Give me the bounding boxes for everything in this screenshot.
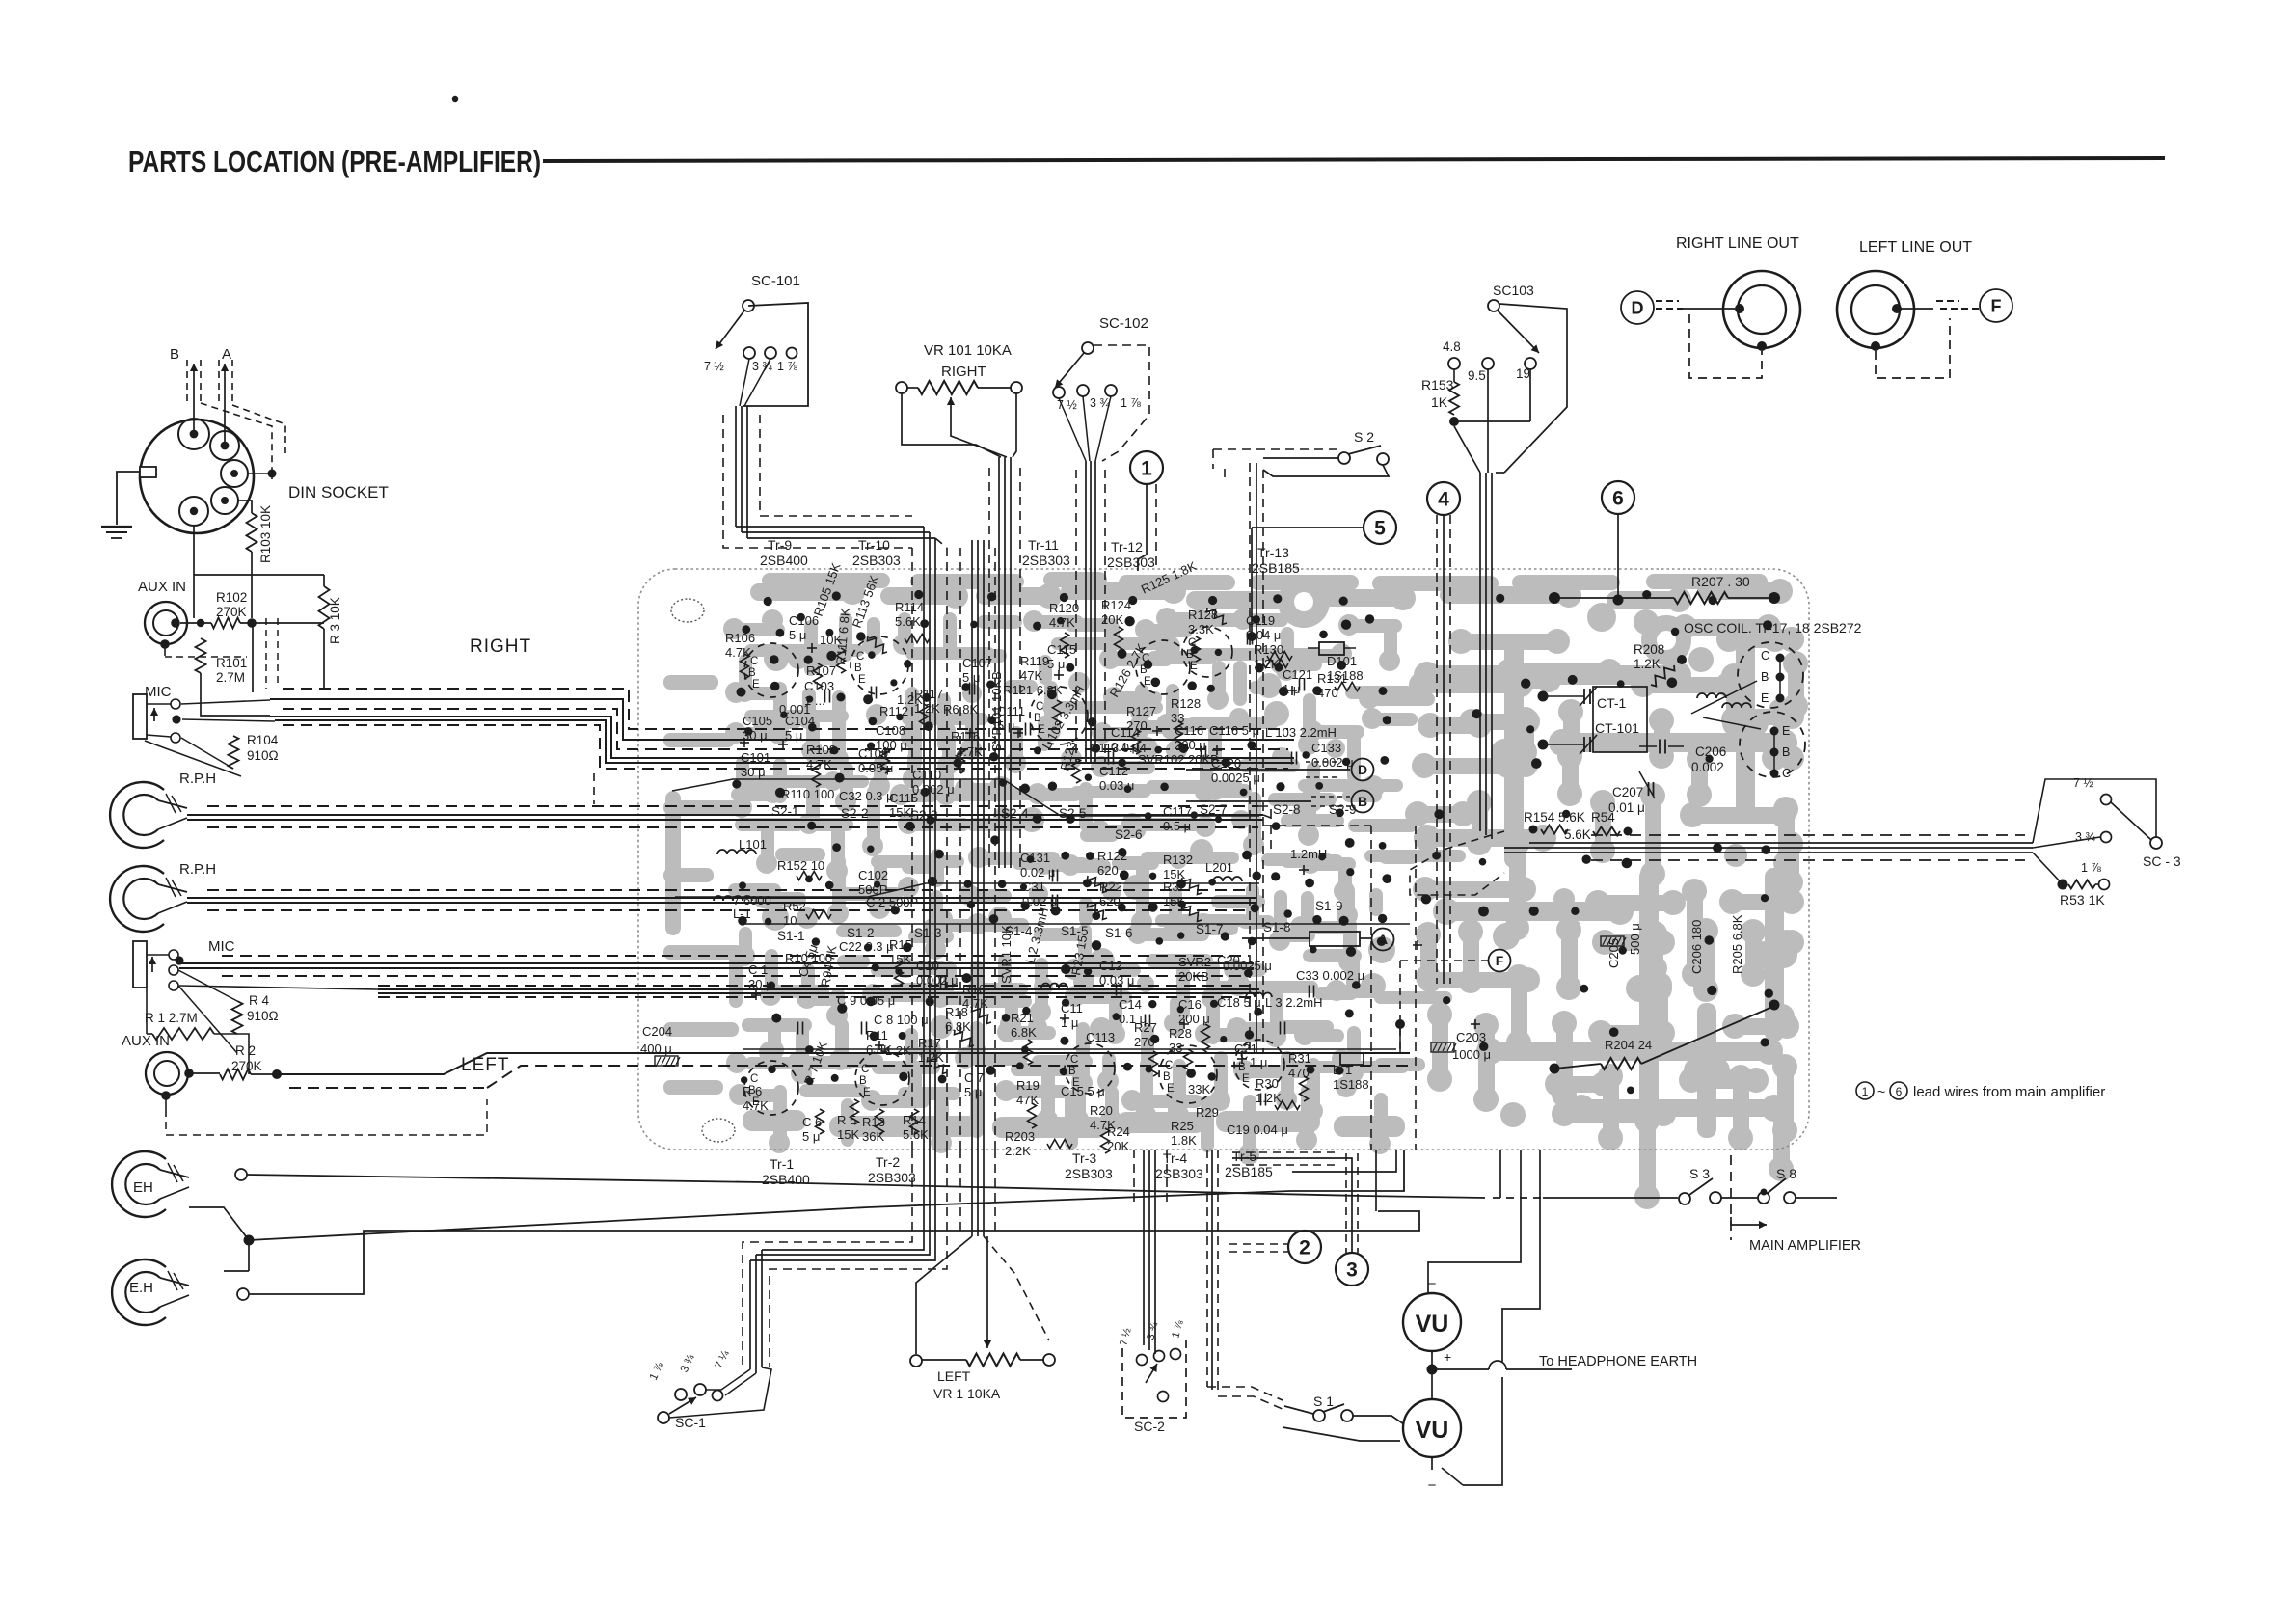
svg-text:A: A	[1378, 932, 1388, 947]
svg-text:R108: R108	[806, 743, 836, 757]
DIN socket	[140, 420, 254, 533]
transistor Tr-5 (dashed outline)	[1234, 1040, 1284, 1090]
svg-text:1.2K: 1.2K	[897, 692, 923, 707]
svg-text:Tr-12: Tr-12	[1111, 539, 1143, 555]
svg-text:C32 0.3 μ: C32 0.3 μ	[839, 789, 894, 803]
svg-text:C206 180: C206 180	[1689, 920, 1704, 974]
svg-text:47K: 47K	[1020, 668, 1042, 683]
svg-text:CT-1: CT-1	[1597, 695, 1627, 711]
svg-text:2.7M: 2.7M	[216, 670, 245, 685]
resistor R4	[232, 1001, 243, 1034]
svg-text:4: 4	[1438, 489, 1449, 511]
lead wire 1 (circled)	[1130, 451, 1163, 484]
svg-text:4.8: 4.8	[1443, 339, 1461, 354]
svg-text:C107: C107	[962, 656, 992, 670]
svg-text:DIN SOCKET: DIN SOCKET	[288, 483, 389, 501]
svg-text:Tr-3: Tr-3	[1072, 1150, 1096, 1166]
svg-text:R15: R15	[889, 937, 912, 952]
svg-text:C102: C102	[858, 868, 888, 882]
svg-text:S2-6: S2-6	[1115, 827, 1143, 842]
svg-text:C133: C133	[1311, 741, 1341, 755]
wire R101 to MIC	[201, 673, 270, 716]
svg-text:C101: C101	[741, 750, 770, 765]
lead wire 5 (circled)	[1364, 511, 1396, 544]
svg-text:5 μ: 5 μ	[964, 1085, 982, 1099]
svg-text:S1-8: S1-8	[1263, 920, 1291, 934]
S2 bundle down to bus E	[1249, 463, 1251, 1051]
svg-text:Tr-13: Tr-13	[1257, 545, 1289, 560]
svg-text:C204: C204	[642, 1024, 672, 1039]
svg-text:10: 10	[783, 913, 797, 928]
bundle to SC-3 (right exit)	[1529, 842, 2033, 844]
svg-text:SC-2: SC-2	[1134, 1419, 1165, 1434]
svg-text:0.002 μ: 0.002 μ	[1311, 755, 1354, 770]
svg-text:30 μ: 30 μ	[741, 765, 766, 779]
svg-text:B: B	[859, 1075, 867, 1087]
svg-text:C: C	[1036, 701, 1043, 713]
svg-text:2SB185: 2SB185	[1252, 560, 1300, 576]
svg-text:0.05 μ: 0.05 μ	[858, 761, 893, 775]
svg-text:RIGHT: RIGHT	[470, 636, 531, 657]
svg-text:C14: C14	[1119, 997, 1142, 1012]
transistor Tr-9 (dashed outline)	[744, 643, 798, 697]
SC-102 dashed frame	[1094, 345, 1149, 461]
stray ink dot	[452, 96, 458, 102]
svg-text:2: 2	[1299, 1237, 1310, 1259]
svg-text:R128: R128	[1171, 696, 1201, 711]
R.P.H hook 1	[110, 782, 164, 848]
node R102/R3	[247, 618, 257, 628]
svg-text:Tr-4: Tr-4	[1163, 1150, 1187, 1166]
svg-text:7 ½: 7 ½	[704, 360, 724, 373]
svg-text:S2-7: S2-7	[1200, 802, 1228, 817]
D dashed box	[1689, 314, 1762, 378]
svg-text:C121: C121	[1283, 667, 1312, 682]
DIN pin 4	[211, 487, 238, 514]
svg-text:R205 6.8K: R205 6.8K	[1730, 914, 1744, 974]
svg-text:VU: VU	[1416, 1417, 1449, 1444]
svg-text:6.8K: 6.8K	[945, 1019, 971, 1034]
horizontal wire crossing PCB (row 2)	[675, 883, 1259, 897]
svg-text:C 2 500P: C 2 500P	[866, 895, 918, 909]
svg-text:2SB303: 2SB303	[1155, 1166, 1203, 1181]
svg-text:5 μ: 5 μ	[789, 628, 806, 642]
lead wire 3 (circled)	[1336, 1253, 1368, 1286]
svg-text:R 3 10K: R 3 10K	[328, 597, 342, 644]
svg-text:C: C	[1782, 767, 1791, 780]
svg-text:1K: 1K	[1431, 394, 1448, 410]
long wire L3	[249, 1211, 1419, 1294]
svg-text:R116: R116	[951, 729, 980, 744]
cable bus D	[222, 955, 1249, 957]
note: lead wires from main amplifier	[1856, 1082, 1874, 1099]
resistor R104	[229, 736, 239, 769]
svg-text:R124: R124	[1101, 598, 1131, 612]
svg-text:5 μ: 5 μ	[997, 718, 1014, 733]
svg-text:OSC COIL. Tr-17, 18 2SB272: OSC COIL. Tr-17, 18 2SB272	[1684, 620, 1862, 636]
svg-text:B: B	[170, 346, 179, 363]
svg-text:9.5: 9.5	[1468, 368, 1486, 383]
svg-text:C: C	[1761, 649, 1769, 663]
SC-102 lever	[1055, 353, 1084, 388]
DIN pin 2	[210, 431, 239, 460]
svg-text:C: C	[856, 651, 864, 663]
svg-text:C15 5 μ: C15 5 μ	[1061, 1084, 1105, 1098]
svg-text:400 μ: 400 μ	[640, 1042, 672, 1056]
svg-text:20KB: 20KB	[1178, 969, 1209, 984]
svg-text:R20: R20	[1090, 1103, 1113, 1118]
svg-text:6: 6	[1612, 488, 1624, 510]
second bundle into PCB	[971, 540, 973, 1150]
svg-text:D: D	[1632, 298, 1644, 317]
svg-text:−: −	[1428, 1477, 1437, 1494]
svg-text:C11: C11	[1061, 1001, 1083, 1015]
svg-text:R14: R14	[903, 1113, 926, 1127]
svg-text:+: +	[1444, 1349, 1451, 1365]
solder pads	[732, 590, 1773, 1094]
svg-text:1 ⅞: 1 ⅞	[1121, 396, 1141, 410]
svg-text:5 μ: 5 μ	[785, 728, 802, 743]
svg-text:R19: R19	[1016, 1078, 1040, 1093]
contact 2	[237, 1288, 249, 1300]
arrow to main amplifier	[1731, 1217, 1747, 1225]
lead wire F (circled)	[1980, 289, 2012, 322]
svg-text:R 1 2.7M: R 1 2.7M	[145, 1011, 198, 1025]
PCB copper traces (screened gray)	[663, 572, 1808, 1209]
resistor R103	[247, 513, 257, 552]
svg-text:E: E	[1782, 724, 1790, 738]
svg-text:C 8 100 μ: C 8 100 μ	[874, 1013, 929, 1027]
svg-text:VR 1 10KA: VR 1 10KA	[933, 1386, 1001, 1401]
cable bus E (LEFT feed)	[277, 1053, 1410, 1074]
svg-text:1 ⅞: 1 ⅞	[777, 360, 797, 373]
svg-text:C116 5 μ: C116 5 μ	[1209, 723, 1259, 738]
lead wire 2 (circled)	[1288, 1231, 1321, 1263]
svg-text:R208: R208	[1634, 642, 1664, 657]
svg-text:R.P.H: R.P.H	[179, 771, 216, 787]
svg-text:L-1: L-1	[733, 907, 751, 921]
svg-text:C 7: C 7	[964, 1070, 984, 1085]
svg-text:1.2mH: 1.2mH	[1290, 847, 1327, 861]
svg-text:C110: C110	[912, 768, 941, 782]
svg-text:A: A	[222, 346, 231, 363]
VU meter 2	[1403, 1399, 1461, 1457]
svg-text:1.2K: 1.2K	[885, 1043, 911, 1058]
svg-text:C131: C131	[1020, 851, 1050, 865]
SC-102 pole contact	[1082, 342, 1094, 354]
svg-text:R52: R52	[783, 899, 806, 913]
svg-text:R106: R106	[725, 631, 755, 645]
svg-text:B: B	[1140, 664, 1148, 676]
contact	[235, 1169, 247, 1180]
VR101 wiring	[902, 393, 1001, 457]
svg-text:3 ¾: 3 ¾	[1090, 396, 1110, 410]
svg-text:1.2K: 1.2K	[1634, 657, 1661, 671]
board mounting hole 2	[702, 1119, 735, 1142]
svg-text:SC - 3: SC - 3	[2143, 853, 2181, 869]
wire pin4 to R103	[238, 501, 252, 513]
svg-text:E: E	[863, 1087, 871, 1098]
svg-text:2SB185: 2SB185	[1225, 1164, 1273, 1179]
svg-text:B: B	[854, 663, 862, 674]
R.P.H hook 2	[110, 866, 164, 932]
svg-text:2SB400: 2SB400	[760, 553, 808, 568]
svg-text:S 3: S 3	[1689, 1166, 1710, 1181]
E.H hook 1	[112, 1151, 166, 1217]
DIN chassis tab	[140, 467, 156, 477]
svg-text:5: 5	[1374, 518, 1386, 540]
svg-text:C 6: C 6	[802, 1115, 822, 1129]
svg-text:S2-8: S2-8	[1273, 802, 1301, 817]
svg-text:C: C	[1165, 1060, 1173, 1071]
svg-text:F: F	[1496, 953, 1504, 968]
jack LEFT LINE OUT	[1837, 271, 1914, 348]
svg-text:R122: R122	[1097, 849, 1127, 863]
SC103 frame wire	[1499, 304, 1567, 473]
svg-text:S 8: S 8	[1776, 1166, 1796, 1181]
SC-101 lever	[716, 311, 744, 349]
svg-text:R110 100: R110 100	[781, 787, 834, 801]
svg-text:1.8K: 1.8K	[1171, 1133, 1197, 1148]
svg-text:0.002 μ: 0.002 μ	[912, 782, 955, 797]
svg-text:1000 μ: 1000 μ	[1452, 1047, 1491, 1062]
svg-text:270: 270	[1134, 1035, 1155, 1049]
svg-text:S 1: S 1	[1313, 1394, 1334, 1409]
svg-text:MIC: MIC	[145, 684, 172, 700]
SC-3 fan-out	[2033, 779, 2156, 843]
svg-text:MIC: MIC	[208, 938, 235, 955]
svg-text:C112: C112	[1099, 764, 1128, 778]
svg-text:S1-1: S1-1	[777, 929, 805, 943]
dashed wire to F	[1400, 960, 1488, 961]
wire to (3)	[1345, 1153, 1347, 1253]
svg-text:R101: R101	[216, 656, 247, 670]
board mounting hole	[671, 599, 704, 622]
svg-text:R130: R130	[1254, 642, 1283, 657]
transistor Tr-18 (dashed outline)	[1740, 712, 1805, 777]
component reference labels on PCB	[640, 558, 1744, 1158]
resistor R101	[196, 638, 206, 673]
resistor R204	[1550, 1064, 1560, 1074]
resistor R3	[319, 586, 330, 629]
svg-text:R152 10: R152 10	[777, 858, 824, 873]
svg-text:3: 3	[1346, 1259, 1358, 1282]
svg-text:C203: C203	[1456, 1030, 1486, 1044]
svg-text:R30: R30	[1256, 1076, 1279, 1091]
diode D1	[1340, 1053, 1364, 1065]
svg-text:3.3K: 3.3K	[1188, 622, 1214, 636]
svg-text:SC-101: SC-101	[751, 273, 800, 289]
wire R3 stub	[323, 575, 325, 586]
svg-text:3 ¾: 3 ¾	[752, 360, 772, 373]
svg-text:S2-2: S2-2	[841, 806, 869, 821]
wire pin3 to shield junction	[248, 473, 272, 474]
trimmer box CT-1 / CT-101	[1593, 687, 1647, 752]
svg-text:910Ω: 910Ω	[247, 748, 279, 763]
svg-text:20K: 20K	[1101, 612, 1123, 627]
DIN pin 1	[178, 419, 209, 449]
mic jack lower	[133, 941, 147, 988]
lead wires D and B (circled) at PCB right	[1352, 759, 1374, 781]
svg-text:R25: R25	[1171, 1119, 1194, 1133]
svg-text:R102: R102	[216, 590, 247, 605]
jack AUX IN (top)	[145, 602, 187, 644]
svg-text:1: 1	[1862, 1085, 1869, 1098]
svg-text:LEFT: LEFT	[461, 1055, 509, 1075]
svg-text:S2-5: S2-5	[1059, 806, 1087, 821]
VR101 bundle down	[998, 457, 1000, 868]
svg-text:E: E	[1144, 676, 1151, 688]
svg-text:1.2K: 1.2K	[918, 1050, 944, 1065]
svg-text:0.5 μ: 0.5 μ	[1163, 819, 1191, 833]
svg-text:R127: R127	[1126, 704, 1156, 718]
svg-text:MAIN AMPLIFIER: MAIN AMPLIFIER	[1749, 1238, 1861, 1254]
svg-text:4.7K: 4.7K	[957, 744, 983, 759]
dashed link to transistor	[1410, 831, 1504, 895]
svg-text:2SB303: 2SB303	[1065, 1166, 1113, 1181]
wire from (1)	[1138, 484, 1147, 571]
R153 junction wiring	[1454, 420, 1530, 422]
SC103 pole	[1488, 300, 1499, 311]
jack AUX IN (bottom)	[146, 1052, 188, 1095]
long wire L1	[247, 1175, 1485, 1198]
svg-text:5 μ: 5 μ	[802, 1129, 820, 1144]
transistor Tr-13 (dashed outline)	[1182, 627, 1232, 677]
svg-text:C105: C105	[743, 714, 772, 728]
diode block near A	[1310, 932, 1360, 946]
svg-text:R 4: R 4	[249, 993, 270, 1008]
SC-102 wires to bundle	[1059, 398, 1086, 461]
svg-text:S1-6: S1-6	[1105, 926, 1133, 940]
svg-text:B: B	[1034, 713, 1041, 724]
cable bus D2	[179, 986, 378, 989]
wire from (5)	[1252, 527, 1363, 528]
lead wire 6 (circled)	[1602, 481, 1634, 514]
mic jack upper	[133, 694, 147, 739]
svg-text:1 ⅞: 1 ⅞	[2081, 861, 2101, 875]
svg-text:7 ½: 7 ½	[2073, 776, 2093, 790]
svg-text:B: B	[1358, 794, 1367, 809]
svg-text:C104: C104	[785, 714, 815, 728]
svg-text:0.04 μ: 0.04 μ	[1246, 628, 1281, 642]
svg-text:C207: C207	[1612, 785, 1643, 799]
svg-text:C117: C117	[1163, 804, 1192, 819]
svg-text:F: F	[1991, 296, 2002, 315]
svg-text:B: B	[1782, 745, 1790, 759]
svg-text:D101: D101	[1327, 654, 1357, 668]
bundle PCB to SC-1 (left exit)	[762, 1150, 924, 1250]
svg-text:15K: 15K	[889, 805, 911, 820]
svg-text:S 2: S 2	[1354, 429, 1374, 445]
svg-text:C206: C206	[1695, 744, 1726, 759]
svg-text:R121 6.8K: R121 6.8K	[1003, 683, 1063, 697]
svg-text:R28: R28	[1169, 1026, 1192, 1041]
svg-text:VR 101 10KA: VR 101 10KA	[924, 342, 1012, 359]
svg-text:E: E	[1761, 691, 1769, 705]
svg-text:910Ω: 910Ω	[247, 1009, 279, 1023]
svg-text:B: B	[1761, 670, 1769, 684]
svg-text:~: ~	[1877, 1084, 1885, 1099]
dashed shield pair right of dense area	[1370, 826, 1372, 1150]
svg-text:C108: C108	[876, 723, 905, 738]
svg-text:2SB400: 2SB400	[762, 1172, 810, 1187]
bundle PCB to VR1	[971, 1150, 973, 1236]
svg-text:B: B	[1068, 1066, 1076, 1077]
svg-text:620: 620	[1099, 894, 1121, 908]
DIN pin 3	[221, 460, 248, 487]
svg-text:C: C	[861, 1064, 869, 1075]
svg-text:C: C	[750, 656, 758, 667]
diode D101	[1319, 642, 1344, 655]
SC-101 contacts	[743, 347, 755, 359]
svg-text:1S188: 1S188	[1333, 1077, 1369, 1092]
transistor Tr-2 (dashed outline)	[855, 1051, 909, 1105]
wire to headphone earth	[1432, 1368, 1489, 1370]
node EH junction	[244, 1235, 255, 1246]
svg-text:VU: VU	[1416, 1311, 1449, 1338]
switch S2	[1338, 452, 1350, 464]
transistor Tr-12 (dashed outline)	[1136, 640, 1190, 694]
svg-text:C10: C10	[916, 959, 939, 973]
svg-text:L 103 2.2mH: L 103 2.2mH	[1265, 725, 1337, 740]
title rule	[543, 158, 2165, 161]
svg-text:L201: L201	[1205, 860, 1233, 875]
svg-text:2SB303: 2SB303	[1022, 553, 1070, 568]
svg-text:R6.8K: R6.8K	[943, 702, 978, 717]
transistor Tr-11 (dashed outline)	[1030, 687, 1088, 744]
svg-text:S1-2: S1-2	[847, 926, 875, 940]
lead wire 4 (circled)	[1427, 482, 1460, 515]
resistor R102	[180, 622, 211, 624]
trimmer cap CT-1 symbol	[1583, 689, 1585, 704]
svg-text:SVR1 10K: SVR1 10K	[999, 925, 1013, 984]
svg-text:R104: R104	[247, 733, 279, 747]
svg-text:C120: C120	[1211, 756, 1241, 771]
svg-text:C18 5 μ: C18 5 μ	[1217, 995, 1261, 1010]
svg-text:0.002 μ: 0.002 μ	[916, 973, 959, 988]
svg-text:0.002: 0.002	[1691, 760, 1724, 774]
svg-text:C 1: C 1	[748, 962, 768, 977]
SC-102 contacts	[1053, 387, 1065, 398]
svg-text:C113: C113	[1086, 1030, 1115, 1044]
wire mic contacts	[181, 700, 270, 704]
svg-text:30 μ: 30 μ	[748, 977, 773, 991]
svg-text:R17: R17	[918, 1036, 941, 1050]
svg-text:B: B	[748, 667, 756, 679]
lead wire D (circled)	[1621, 291, 1654, 324]
svg-text:2.2K: 2.2K	[1005, 1144, 1031, 1158]
wire from (4)	[1436, 515, 1438, 984]
svg-text:S2-1: S2-1	[771, 804, 799, 819]
svg-text:SVR2: SVR2	[1178, 955, 1211, 969]
wire B (dashed shield, arrow up)	[186, 360, 188, 403]
E.H hook 2	[112, 1259, 166, 1325]
svg-text:4.7K: 4.7K	[743, 1098, 769, 1113]
svg-text:1 μ: 1 μ	[1283, 682, 1300, 696]
wire bundle SC-101 (down, then right, then down into PCB)	[735, 406, 737, 527]
svg-text:LEFT: LEFT	[937, 1368, 971, 1384]
svg-text:C: C	[1070, 1054, 1078, 1066]
svg-text:Tr-1: Tr-1	[770, 1156, 794, 1172]
svg-text:−: −	[1428, 1276, 1437, 1292]
cable bus C	[207, 889, 1252, 891]
svg-text:S2-9: S2-9	[1329, 802, 1357, 817]
connector SC-2 (dashed box)	[1122, 1340, 1186, 1418]
transistor Tr-3 (dashed outline)	[1065, 1043, 1115, 1094]
svg-text:15K: 15K	[837, 1127, 859, 1142]
svg-text:EH: EH	[133, 1179, 153, 1196]
svg-text:Tr-5: Tr-5	[1232, 1149, 1256, 1164]
